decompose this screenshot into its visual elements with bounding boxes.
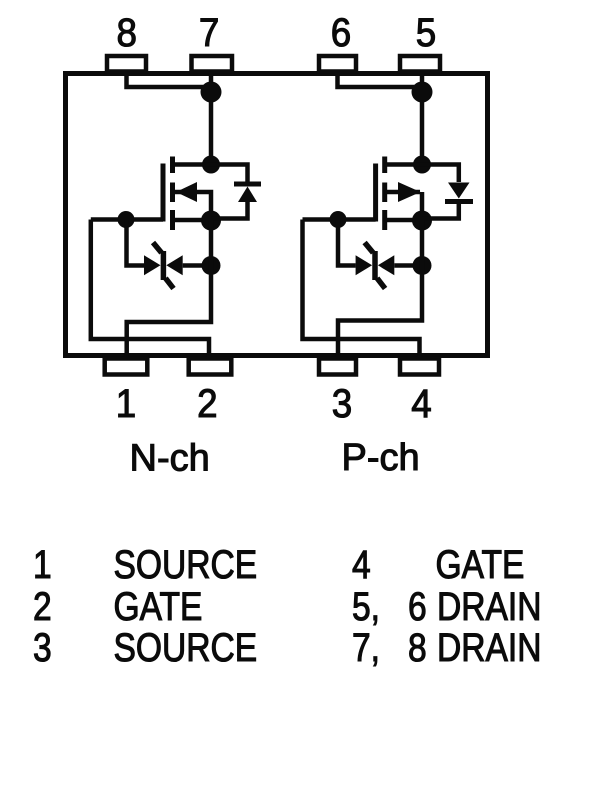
wire P gate to zener [338,220,356,266]
transistor Q2 source stub [385,218,422,223]
wire pin6 jog to node [338,74,423,88]
wire zener to N source line [183,263,211,268]
zener Z2 right triangle [378,255,394,275]
zener Z2 bar with wings [365,243,386,289]
zener Z1 left triangle [144,255,161,275]
transistor Q1 body stub [175,192,211,221]
svg-text:GATE: GATE [435,542,524,586]
svg-text:4: 4 [352,542,371,586]
node N zener dot [202,256,221,275]
svg-text:1: 1 [116,382,136,427]
svg-text:GATE: GATE [113,584,202,628]
pin 4 pad [400,359,439,375]
transistor Q2 body arrow [398,182,421,202]
transistor Q1 source stub [173,218,212,223]
diode D1 triangle [238,187,257,203]
wire Q1 gate lead [91,217,163,222]
zener Z1 right triangle [166,255,182,275]
node pins7-8 junction dot [201,82,222,103]
transistor Q1 channel segments [170,157,175,231]
svg-text:P-ch: P-ch [342,437,420,479]
svg-text:8: 8 [117,10,137,55]
diode D2 body diode leads [422,165,459,219]
node N source dot [201,211,221,231]
diode D1 body diode leads [211,165,248,219]
zener Z1 bar with wings [153,243,174,289]
transistor Q2 drain stub [385,162,422,167]
svg-text:3: 3 [332,382,352,427]
svg-text:8: 8 [408,625,427,669]
svg-text:7,: 7, [352,625,380,669]
svg-text:6: 6 [331,10,351,55]
pin 5 pad [400,56,440,72]
svg-text:6: 6 [408,584,427,628]
svg-text:4: 4 [411,382,431,427]
svg-text:2: 2 [33,584,52,628]
transistor Q2 P-ch gate bar [373,164,378,222]
wire P gate to pin 4 [303,220,420,358]
wire Q2 gate lead [303,217,376,222]
zener Z2 left triangle [356,255,373,275]
svg-text:5: 5 [416,10,436,55]
svg-text:3: 3 [33,625,52,669]
svg-text:SOURCE: SOURCE [113,542,257,586]
diode D2 triangle [448,183,470,199]
svg-text:7: 7 [199,10,219,55]
pin 2 pad [189,359,232,375]
pin 1 pad [105,359,148,375]
diode D2 cathode bar [445,199,473,204]
package outline [66,74,488,356]
wire pin8 jog to node [127,74,212,88]
wire pin7 drain feed [209,74,214,165]
node pins5-6 junction dot [412,82,433,103]
node P gate dot [330,211,347,228]
transistor Q2 channel segments [382,157,387,231]
node P drain dot [413,156,431,174]
wire N source to pin 1 [127,221,211,358]
wire N gate to pin 2 [91,220,209,358]
wire zener to P source line [394,263,422,268]
node P zener dot [413,256,432,275]
pin 7 pad [192,56,233,72]
node N drain dot [202,156,220,174]
pin 8 pad [107,56,146,72]
svg-text:5,: 5, [352,584,380,628]
wire P source to pin 3 [338,221,422,358]
svg-text:2: 2 [197,382,217,427]
pin 3 pad [319,359,356,375]
svg-text:DRAIN: DRAIN [437,584,542,628]
transistor Q1 body arrow [176,182,197,202]
transistor Q2 body stub [385,192,422,221]
diode D1 cathode bar [234,182,261,187]
wire pin5 drain feed [420,74,425,165]
node P source dot [412,211,432,231]
svg-text:1: 1 [33,542,52,586]
node N gate dot [118,211,135,228]
transistor Q1 drain stub [173,162,212,167]
wire N gate to zener [127,220,145,266]
svg-text:N-ch: N-ch [130,437,210,479]
pin 6 pad [319,56,356,72]
svg-text:DRAIN: DRAIN [437,625,542,669]
svg-text:SOURCE: SOURCE [113,625,257,669]
transistor Q1 N-ch gate bar [161,164,166,222]
